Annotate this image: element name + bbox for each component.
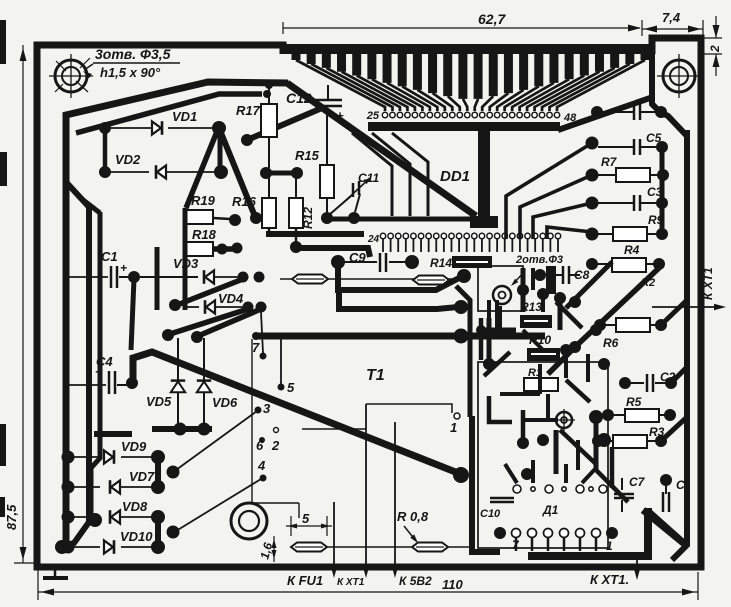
mounting hole top-left (55, 60, 87, 92)
pad (590, 324, 602, 336)
pad (589, 410, 603, 424)
wire thin vertical pad5 (280, 339, 282, 384)
svg-text:3: 3 (263, 401, 271, 416)
node 4 (260, 475, 267, 482)
pad (598, 358, 610, 370)
pad (597, 433, 611, 447)
svg-text:C1: C1 (101, 249, 118, 264)
diode VD7 (62, 481, 75, 494)
pad (569, 296, 581, 308)
svg-text:VD9: VD9 (121, 439, 147, 454)
wire to SB2 (394, 422, 396, 574)
pad (560, 344, 572, 356)
wire module diag to edge (643, 510, 687, 546)
dimension 62,7 (283, 27, 640, 29)
wire fan diagonal (533, 203, 592, 239)
svg-text:C11: C11 (358, 171, 379, 185)
dimension 110 (bottom) (38, 591, 698, 593)
svg-text:R16: R16 (232, 194, 257, 209)
svg-text:R19: R19 (191, 193, 216, 208)
hole 2otv B (556, 412, 572, 428)
dimension 5 (286, 525, 332, 527)
svg-text:R 0,8: R 0,8 (397, 509, 429, 524)
svg-text:62,7: 62,7 (478, 11, 506, 27)
dimension 7,4 (642, 28, 703, 30)
svg-text:5: 5 (302, 511, 310, 526)
wire VD9-VD7 join (155, 457, 161, 487)
wire bus B left y=249 (213, 246, 240, 252)
diode VD9 (62, 451, 75, 464)
svg-text:R15: R15 (295, 148, 320, 163)
wire to FU1 (333, 502, 335, 574)
svg-text:24: 24 (367, 234, 380, 245)
svg-text:VD4: VD4 (218, 291, 244, 306)
svg-text:2: 2 (708, 45, 722, 53)
pad (483, 358, 495, 370)
svg-text:С10: С10 (480, 508, 501, 520)
svg-text:VD10: VD10 (120, 529, 153, 544)
wire vertical x157 (155, 250, 160, 310)
wire to XT1 (365, 404, 367, 574)
wire fan diagonal (520, 175, 592, 239)
module pad row 2 (496, 529, 505, 538)
wire module internals (487, 318, 492, 364)
wire diagonal VD1 pad down (219, 128, 254, 214)
bus diagonal to top right corner (558, 98, 652, 130)
wire thin diagonal to node 4 (176, 479, 261, 531)
svg-text:C7: C7 (629, 475, 646, 489)
wire cluster verticals (155, 247, 160, 307)
pad (537, 288, 549, 300)
svg-text:VD1: VD1 (172, 109, 197, 124)
diode VD10 (62, 541, 75, 554)
DD1 bottom pad row pins 1-24 (380, 233, 385, 238)
wire thin link 3-6 (251, 339, 253, 503)
svg-text:+: + (120, 261, 127, 275)
scan artifact marks (0, 20, 6, 64)
wire left outer L-trace (66, 82, 288, 548)
wire apex triangle (247, 108, 322, 140)
svg-text:К ХТ1.: К ХТ1. (590, 572, 629, 587)
wire VD8-VD10 join (155, 517, 161, 547)
svg-text:R5: R5 (626, 395, 642, 409)
wire module left vertical (472, 416, 500, 552)
wire diagonals to pad row (352, 133, 392, 216)
wire box to node1 (366, 404, 452, 413)
diode VD1 (99, 122, 111, 134)
ground symbol (54, 567, 57, 577)
diode VD8 (62, 511, 75, 524)
svg-text:h1,5 х 90°: h1,5 х 90° (100, 65, 161, 80)
svg-text:R9: R9 (648, 213, 664, 227)
DD1 trunk (478, 126, 490, 218)
svg-text:Д1: Д1 (542, 503, 559, 517)
module outline box (478, 362, 608, 548)
svg-text:+: + (95, 365, 102, 379)
module pad row 1 (513, 485, 521, 493)
board outline (37, 38, 701, 567)
wire stair diagonals (177, 279, 243, 305)
node 5 (278, 384, 285, 391)
svg-text:5: 5 (287, 380, 295, 395)
svg-text:R17: R17 (236, 103, 261, 118)
wire diagonal R6 to edge (661, 300, 687, 325)
node 1 (454, 413, 460, 419)
edge connector bar (281, 44, 653, 54)
mounting hole top-right (663, 60, 695, 92)
svg-text:2отв.Ф3: 2отв.Ф3 (515, 254, 563, 266)
wire to XT1 right (636, 556, 638, 575)
svg-text:К ХТ1: К ХТ1 (337, 577, 365, 588)
wire C11 to trunk foot (321, 212, 333, 224)
DD1 top pad row pins 25-48 (382, 112, 387, 117)
wire VD1-VD2 junction (218, 128, 223, 172)
dimension 1,6 (273, 536, 275, 562)
wire diagonal R4 to module (548, 268, 659, 374)
svg-text:VD6: VD6 (212, 395, 238, 410)
svg-text:К 5В2: К 5В2 (399, 574, 432, 588)
node 3 (255, 407, 262, 414)
svg-text:К ХТ1: К ХТ1 (701, 267, 715, 300)
wire bus A y=234 (266, 231, 364, 237)
wire long diagonal (133, 352, 458, 473)
connector finger traces fan (292, 54, 301, 60)
DD1 bus bar (368, 122, 560, 131)
svg-text:6: 6 (256, 438, 264, 453)
wire U-shape upper (338, 266, 461, 290)
jumper link J1 (280, 278, 456, 280)
svg-text:C: C (676, 478, 685, 492)
pad (476, 325, 486, 335)
wire fan diagonal (506, 143, 592, 239)
wire inner-left vertical (60, 207, 89, 547)
node 6 (259, 437, 265, 443)
svg-text:T1: T1 (366, 367, 385, 384)
mounting hole bottom-center (231, 503, 267, 539)
svg-text:DD1: DD1 (440, 168, 470, 185)
wire second chamfer trace (76, 94, 262, 133)
svg-text:R14: R14 (430, 256, 452, 270)
wire big diagonal to DD1 foot (287, 83, 476, 216)
wire diagonal C2 to edge (671, 367, 687, 383)
fuse link FU1 (291, 543, 327, 552)
svg-text:R18: R18 (192, 227, 217, 242)
wire vertical x185 (183, 208, 188, 310)
svg-text:87,5: 87,5 (4, 504, 19, 530)
wire thin diagonal to node 3 (176, 411, 257, 470)
capacitor top right (591, 106, 603, 118)
wire pads column vertical (103, 124, 108, 174)
dimension 87,5 (left side) (22, 45, 24, 563)
svg-text:R7: R7 (601, 155, 618, 169)
node 2 (274, 428, 279, 433)
K XT1 right arrow (652, 306, 722, 308)
wire diagonal R3 to edge (661, 417, 687, 441)
svg-text:+: + (336, 108, 344, 123)
jumper link J2 (413, 276, 449, 285)
wire diagonal VD1 pad left leg (186, 129, 218, 208)
wire C1 pad down to bend (131, 279, 134, 350)
svg-text:К FU1: К FU1 (287, 573, 323, 588)
wire fan diagonal (547, 227, 592, 239)
svg-text:C12: C12 (286, 90, 312, 106)
wire long bus to module (256, 333, 545, 340)
svg-text:VD5: VD5 (146, 394, 172, 409)
wire right pads vertical (660, 143, 665, 234)
svg-text:1: 1 (450, 420, 457, 435)
hole 2otv A (493, 286, 511, 304)
svg-text:4: 4 (257, 458, 266, 473)
pad (517, 284, 529, 296)
dimension 2 (right side) (701, 37, 722, 39)
pad (537, 434, 549, 446)
svg-text:1: 1 (606, 539, 613, 553)
wire VD5 VD6 bottom bus (152, 426, 212, 432)
node 7 (260, 353, 267, 360)
svg-text:VD2: VD2 (115, 152, 141, 167)
pad (554, 292, 566, 304)
svg-text:R6: R6 (603, 336, 619, 350)
svg-text:7: 7 (252, 340, 260, 355)
diode VD2 (99, 166, 111, 178)
svg-text:3отв. Ф3,5: 3отв. Ф3,5 (95, 46, 171, 62)
wire dark bar below C8 (546, 266, 556, 294)
wire module bottom bus (528, 508, 648, 556)
wire diagonal C7 to edge (650, 512, 687, 545)
svg-text:R4: R4 (624, 243, 640, 257)
svg-text:110: 110 (442, 577, 463, 592)
pad (517, 437, 529, 449)
pad (521, 468, 533, 480)
svg-text:2: 2 (271, 438, 280, 453)
wire U-shape lower (339, 288, 458, 309)
svg-text:VD7: VD7 (129, 469, 155, 484)
wire bus B right y=248 (294, 248, 370, 257)
svg-text:7,4: 7,4 (662, 10, 681, 25)
wire right edge inner trace (652, 54, 664, 116)
svg-text:VD8: VD8 (122, 499, 148, 514)
wire R17 bottom junction (260, 167, 272, 179)
svg-text:25: 25 (366, 110, 380, 122)
